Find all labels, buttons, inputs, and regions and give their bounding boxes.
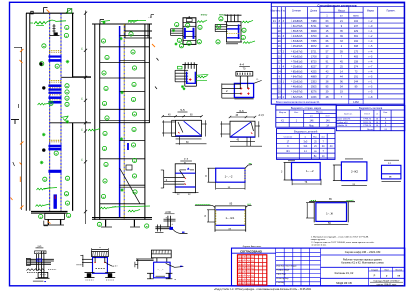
svg-text:483: 483	[354, 55, 359, 58]
detail plate 10 (with flange cuts)	[195, 204, 211, 206]
svg-text:7489: 7489	[311, 20, 317, 23]
svg-text:7-7: 7-7	[184, 157, 189, 161]
svg-text:374: 374	[354, 65, 359, 68]
svg-text:Всего: Всего	[367, 129, 373, 131]
svg-text:Сечение: Сечение	[284, 136, 293, 138]
column K2 rung lines	[120, 35, 150, 37]
svg-text:ГОСТ: ГОСТ	[364, 114, 370, 116]
svg-text:Лист: Лист	[384, 269, 389, 271]
svg-text:т–7: т–7	[368, 65, 373, 68]
svg-text:СОГЛАСОВАНО: СОГЛАСОВАНО	[240, 250, 263, 254]
svg-text:7798-70: 7798-70	[363, 125, 372, 127]
title block object row	[321, 266, 405, 268]
svg-text:прв рбт чрт сд: прв рбт чрт сд	[238, 279, 254, 281]
column K2 weld symbols	[88, 129, 96, 131]
detail node 3 (section)	[184, 62, 186, 69]
title block signature grid	[276, 248, 321, 286]
svg-text:Марка: Марка	[367, 11, 374, 13]
svg-text:Всего масса металла по колонне: Всего масса металла по колонне К1	[276, 100, 320, 104]
svg-text:1–..–2: 1–..–2	[225, 175, 233, 179]
svg-text:229: 229	[354, 30, 359, 33]
column K2 right flange lines	[144, 24, 146, 220]
plate detail 14	[309, 201, 355, 203]
svg-text:Н.контр Кор: Н.контр Кор	[276, 278, 289, 280]
svg-text:Масса: Масса	[338, 11, 345, 13]
svg-text:5-5: 5-5	[180, 108, 185, 112]
column K2 sub rungs	[120, 59, 145, 61]
svg-text:└ 62х67х5: └ 62х67х5	[290, 49, 303, 53]
svg-text:Болт м16х75: Болт м16х75	[338, 119, 351, 121]
svg-text:192: 192	[354, 40, 359, 43]
svg-text:т–5: т–5	[368, 86, 373, 89]
svg-text:Пров Кор: Пров Кор	[276, 274, 286, 276]
column K1 lower web plate (blue)	[54, 195, 57, 209]
left dimension line	[21, 47, 23, 210]
svg-text:7798-70: 7798-70	[363, 119, 372, 121]
svg-text:прв рбт чрт сд: прв рбт чрт сд	[238, 261, 254, 263]
svg-text:т–1: т–1	[368, 30, 373, 33]
svg-text:7355: 7355	[311, 40, 317, 43]
svg-text:т–4: т–4	[368, 60, 373, 63]
svg-text:└ 23х86х5: └ 23х86х5	[290, 19, 303, 23]
svg-text:Гайка м16: Гайка м16	[338, 121, 349, 124]
svg-text:прв рбт чрт сд: прв рбт чрт сд	[238, 257, 254, 259]
svg-text:1–..–2: 1–..–2	[306, 169, 314, 173]
svg-text:└ 46х60х5: └ 46х60х5	[290, 85, 303, 89]
column K1 weld symbols	[34, 22, 46, 24]
despatch marks table	[276, 105, 336, 127]
svg-text:прв рбт чрт сд: прв рбт чрт сд	[238, 272, 254, 274]
svg-text:Мас.: Мас.	[313, 136, 318, 138]
svg-text:5721: 5721	[311, 50, 317, 53]
svg-text:прв рбт чрт сд: прв рбт чрт сд	[238, 264, 254, 266]
svg-text:Шайба 16: Шайба 16	[338, 124, 349, 127]
column K2 top bracket	[124, 24, 126, 38]
dimension line between columns	[85, 11, 87, 225]
column K2 top cap	[92, 23, 152, 25]
column K1 base mark	[43, 221, 45, 226]
svg-text:– 2: – 2	[148, 15, 152, 19]
column K2 left flange lines	[94, 24, 96, 220]
svg-text:158: 158	[354, 60, 359, 63]
column K1 elevation: top cap	[26, 12, 74, 14]
svg-text:2. Сварные швы по ГОСТ 5264-80: 2. Сварные швы по ГОСТ 5264-80, катет шв…	[311, 242, 375, 244]
svg-text:т–2: т–2	[368, 35, 373, 38]
svg-text:└ 15х62х5: └ 15х62х5	[290, 80, 303, 84]
svg-text:Стадия: Стадия	[371, 269, 378, 271]
svg-text:Листов: Листов	[395, 269, 403, 271]
column K1 base plate	[31, 211, 68, 213]
svg-text:5915-70: 5915-70	[363, 122, 372, 124]
svg-text:308: 308	[354, 45, 359, 48]
svg-text:237: 237	[354, 25, 359, 28]
svg-text:3505: 3505	[311, 86, 317, 89]
svg-text:6-6: 6-6	[239, 109, 244, 113]
svg-text:3828: 3828	[311, 30, 317, 33]
svg-text:Масса: Масса	[316, 112, 323, 114]
svg-text:прв рбт чрт сд: прв рбт чрт сд	[238, 276, 254, 278]
svg-text:Разраб Март: Разраб Март	[276, 270, 289, 272]
plate detail 11	[284, 162, 292, 164]
svg-text:Ведомость метизов: Ведомость метизов	[359, 106, 383, 110]
svg-text:Болт кл.: Болт кл.	[344, 114, 353, 116]
plate detail 13	[384, 159, 399, 161]
svg-text:Δ 1,5: Δ 1,5	[259, 114, 265, 117]
svg-text:8720: 8720	[311, 60, 317, 63]
stage sheet boxes	[368, 267, 370, 278]
svg-text:└ 45х45х5: └ 45х45х5	[290, 44, 303, 48]
column K1 margin ticks	[20, 60, 23, 63]
column K2 web line (blue)	[119, 26, 121, 218]
svg-text:МКДК КФ СВ: МКДК КФ СВ	[336, 281, 352, 285]
org name cell	[368, 278, 370, 286]
svg-text:4255: 4255	[311, 71, 317, 74]
svg-text:Кол.: Кол.	[294, 112, 299, 114]
svg-text:└ 52х76х5: └ 52х76х5	[290, 95, 303, 99]
column K2 centerline dashed	[123, 24, 125, 220]
svg-text:Спецификация элементов: Спецификация элементов	[317, 3, 356, 7]
svg-text:Колонны К1 и К2. Монтажные схе: Колонны К1 и К2. Монтажные схемы	[341, 262, 384, 265]
column K1 callout circles	[65, 25, 69, 29]
svg-text:└ 61х75х5: └ 61х75х5	[290, 24, 303, 28]
svg-text:146: 146	[326, 120, 331, 122]
svg-text:шт: шт	[340, 15, 343, 17]
svg-text:прв рбт чрт сд: прв рбт чрт сд	[238, 283, 254, 285]
svg-text:1153: 1153	[311, 96, 317, 99]
svg-text:5741: 5741	[311, 25, 317, 28]
svg-text:8227: 8227	[311, 65, 317, 68]
column K1 anchor bolt symbol	[53, 24, 55, 36]
svg-text:3700: 3700	[311, 35, 317, 38]
svg-text:2353: 2353	[311, 81, 317, 84]
foundation detail 16 feet	[85, 272, 95, 274]
svg-text:К-во: К-во	[281, 11, 286, 13]
title block header strip	[232, 252, 276, 254]
svg-text:– . . –: – . . –	[158, 270, 164, 272]
svg-text:п.т.: п.т.	[388, 163, 392, 165]
column K1 bracket line y123	[50, 122, 91, 124]
column K1 mark flag	[43, 8, 45, 13]
svg-text:Колонны К1, К2: Колонны К1, К2	[335, 271, 354, 275]
svg-text:прв рбт чрт сд: прв рбт чрт сд	[238, 268, 254, 270]
svg-text:└ 43х92х5: └ 43х92х5	[290, 54, 303, 58]
stray ticks right of column K2	[157, 58, 159, 61]
svg-text:т–4: т–4	[368, 71, 373, 74]
svg-text:102: 102	[354, 20, 359, 23]
svg-text:всего: всего	[353, 15, 359, 17]
svg-text:9972: 9972	[311, 45, 317, 48]
svg-text:не менее 4 мм.: не менее 4 мм.	[311, 245, 327, 247]
svg-text:191: 191	[354, 76, 359, 79]
svg-text:сварка ручная.: сварка ручная.	[311, 239, 326, 241]
section mark 1 left	[11, 119, 19, 121]
svg-text:Ведомость отправ. марок: Ведомость отправ. марок	[291, 106, 322, 110]
approval stamp (red)	[238, 255, 267, 285]
svg-text:└ 56х57х5: └ 56х57х5	[290, 29, 303, 33]
svg-text:Ведомость деталей: Ведомость деталей	[294, 130, 318, 134]
column K2 callout circles	[101, 39, 105, 43]
svg-text:└ 44х52х5: └ 44х52х5	[290, 34, 303, 38]
column K2 base plate	[92, 217, 152, 219]
svg-text:└ 34х97х5: └ 34х97х5	[290, 90, 303, 94]
title block frame	[232, 248, 405, 286]
svg-text:т–4: т–4	[368, 50, 373, 53]
svg-text:└ 35х80х5: └ 35х80х5	[290, 64, 303, 68]
column K1 top-right flag	[68, 9, 72, 13]
column K1 left flange lines	[25, 13, 27, 211]
svg-text:Примеч.: Примеч.	[387, 11, 396, 13]
svg-text:└ 53х82х5: └ 53х82х5	[290, 39, 303, 43]
svg-text:т–5: т–5	[368, 55, 373, 58]
svg-text:Изм Кол Лист №док: Изм Кол Лист №док	[276, 264, 296, 267]
svg-text:внизу: внизу	[201, 14, 208, 17]
column K1 black rivets	[42, 86, 45, 89]
column K2 brace detail lower	[120, 168, 140, 204]
column K1 bracket line y77	[61, 76, 91, 78]
svg-text:т–9: т–9	[368, 25, 373, 28]
column K2 green ticks	[119, 38, 122, 40]
svg-text:Вс.: Вс.	[314, 156, 318, 158]
column K1 right flange line lower	[72, 123, 74, 211]
svg-text:Сечение: Сечение	[292, 11, 302, 13]
svg-text:шт.: шт.	[310, 116, 313, 118]
foundation detail 17	[151, 250, 171, 258]
svg-text:т–1: т–1	[368, 81, 373, 84]
svg-text:1462: 1462	[353, 100, 359, 104]
svg-text:1. Материал конструкций – стал: 1. Материал конструкций – сталь С245 по …	[311, 235, 369, 238]
svg-text:1708: 1708	[311, 55, 317, 58]
column K1 green stars	[42, 134, 46, 136]
svg-text:Кол.: Кол.	[383, 112, 388, 114]
svg-text:Длина: Длина	[310, 11, 317, 13]
column K1 bolt rows	[50, 87, 61, 89]
svg-text:└ 84х79х5: └ 84х79х5	[290, 75, 303, 79]
column K1 stiffener plates (blue)	[49, 56, 61, 57]
svg-text:391: 391	[354, 35, 359, 38]
svg-text:Формат Авып.изм.: Формат Авып.изм.	[243, 245, 262, 248]
detail plate 8	[208, 167, 216, 169]
svg-text:└ 78х81х5: └ 78х81х5	[290, 59, 303, 63]
svg-text:8276: 8276	[311, 91, 317, 94]
title block doc number row	[321, 254, 405, 256]
fasteners table	[336, 105, 404, 130]
svg-text:4889: 4889	[311, 76, 317, 79]
parts list table	[277, 129, 336, 160]
column K1 web centerlines (dashed)	[49, 13, 51, 211]
svg-text:Кафедра МиДК СПбГАСУ: Кафедра МиДК СПбГАСУ	[374, 279, 401, 282]
svg-text:1–..Ж1: 1–..Ж1	[226, 216, 235, 220]
svg-text:т–8: т–8	[368, 96, 373, 99]
svg-text:т–5: т–5	[368, 76, 373, 79]
svg-text:└ 85х60х5: └ 85х60х5	[290, 70, 303, 74]
svg-text:т–4: т–4	[368, 40, 373, 43]
plate detail 12	[333, 164, 342, 166]
svg-text:Утв Бар: Утв Бар	[276, 282, 285, 284]
svg-text:1–..Ж: 1–..Ж	[326, 211, 333, 215]
svg-text:всег: всег	[326, 116, 330, 118]
svg-text:т–2: т–2	[368, 20, 373, 23]
detail node 1 (section)	[183, 18, 196, 45]
svg-text:Серия шифр КМ – 2021·КМ: Серия шифр КМ – 2021·КМ	[345, 250, 381, 254]
svg-text:Мар-ка: Мар-ка	[279, 112, 287, 114]
svg-text:175: 175	[354, 50, 359, 53]
column K1 splice hatch rows	[49, 50, 62, 52]
svg-text:т–5: т–5	[368, 45, 373, 48]
svg-text:2–Ж2: 2–Ж2	[351, 170, 358, 174]
svg-text:n.: n.	[257, 78, 259, 81]
title block name row	[321, 277, 405, 279]
svg-text:344: 344	[354, 81, 359, 84]
svg-text:т–5: т–5	[368, 91, 373, 94]
detail node 2 (section)	[227, 14, 229, 21]
specification table	[271, 3, 404, 104]
column K1 right flange line upper	[72, 13, 74, 77]
